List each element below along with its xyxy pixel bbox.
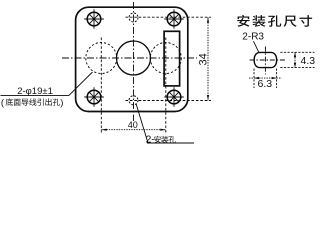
svg-text:34: 34 — [198, 53, 210, 65]
obround vertical centerline — [264, 47, 266, 75]
leader wire exit holes — [1, 72, 93, 95]
svg-text:6.3: 6.3 — [258, 78, 273, 90]
leader 2-R3 — [254, 41, 259, 52]
right hole centerline / extension — [165, 38, 167, 134]
left hole centerline / extension — [100, 38, 102, 134]
dimension line 6.3 — [249, 77, 282, 79]
dimension line 4.3 — [294, 52, 296, 67]
wire exit hole left (phi19) — [86, 43, 117, 74]
dimension line 34 — [207, 17, 209, 100]
mounting plate outline — [76, 7, 188, 111]
corner boss top-right — [167, 12, 181, 26]
wire exit hole right (phi19) — [150, 43, 181, 74]
svg-text:2-: 2- — [146, 135, 155, 146]
corner boss bottom-left — [87, 90, 101, 104]
horizontal centerline — [62, 57, 197, 59]
extension lines 4.3 — [280, 52, 314, 67]
top mounting hole centerline / extension — [126, 16, 212, 18]
title mounting hole dimensions — [237, 15, 312, 27]
dimension line 40 — [101, 129, 166, 131]
extension lines 6.3 — [254, 69, 277, 89]
obround horizontal centerline — [250, 59, 287, 61]
svg-text:2-R3: 2-R3 — [242, 31, 264, 42]
mounting hole bottom — [129, 96, 138, 105]
svg-text:4.3: 4.3 — [301, 55, 316, 67]
bottom mounting hole centerline / extension — [126, 100, 212, 102]
leader mounting holes — [136, 104, 194, 144]
line work group — [1, 2, 212, 143]
svg-text:(: ( — [1, 98, 5, 109]
corner boss bottom-right — [167, 90, 181, 104]
obround mounting hole — [254, 52, 276, 67]
slot rectangle — [164, 31, 180, 86]
svg-text:): ) — [60, 98, 63, 109]
mounting hole top — [129, 13, 138, 22]
svg-text:2-φ19±1: 2-φ19±1 — [17, 86, 53, 97]
vertical centerline — [133, 2, 135, 121]
svg-text:40: 40 — [128, 120, 138, 130]
center circle — [117, 41, 151, 75]
corner boss top-left — [87, 12, 101, 26]
